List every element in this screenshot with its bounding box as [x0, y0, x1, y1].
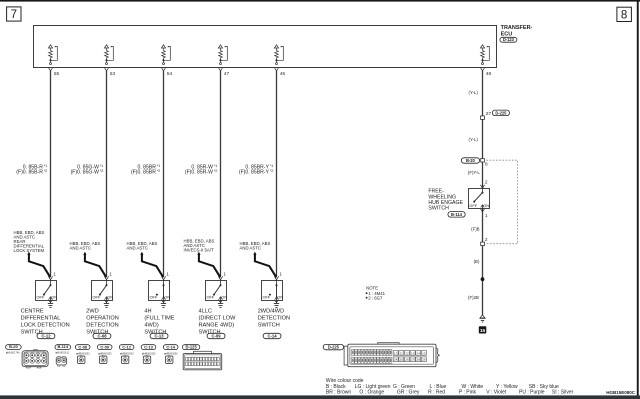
pull-up resistor at ECU pin 53 [104, 45, 113, 63]
2WD operation detection switch (box) [92, 280, 114, 303]
connector face view D-123 [182, 344, 221, 369]
svg-text:HGB15E080C: HGB15E080C [606, 390, 636, 395]
svg-text:54: 54 [167, 71, 173, 76]
svg-text:■MB802652: ■MB802652 [98, 352, 112, 355]
ground below 2WD/4WD detection switch [274, 304, 279, 308]
svg-text:C-14: C-14 [166, 344, 175, 349]
svg-text:C-08: C-08 [97, 334, 107, 339]
centre differential lock detection switch (box) [36, 280, 58, 303]
svg-text:D-225: D-225 [495, 110, 507, 115]
svg-text:AND ASTC: AND ASTC [70, 245, 92, 250]
svg-text:C-13: C-13 [144, 344, 153, 349]
svg-text:OFF: OFF [37, 295, 45, 300]
connector face view C-12 [119, 344, 134, 363]
svg-text:1: 1 [166, 272, 169, 277]
pull-up resistor at ECU pin 54 [161, 45, 170, 63]
svg-text:47: 47 [224, 71, 230, 76]
transfer ECU U1 box [34, 26, 497, 68]
ground below centre differential lock detection switch [48, 304, 53, 308]
page right border [637, 0, 639, 399]
svg-text:(B): (B) [474, 259, 480, 264]
pull-up resistor at ECU pin 55 [48, 45, 57, 63]
terminal chevron above 2WD/4WD detection switch [274, 276, 278, 279]
connector face view C-08 [75, 344, 90, 363]
svg-text:1: 1 [279, 272, 282, 277]
svg-text:■MB802652: ■MB802652 [142, 352, 156, 355]
svg-text:SWITCH: SWITCH [258, 322, 280, 328]
svg-text:12: 12 [405, 351, 409, 355]
terminal chevron above 2WD operation detection switch [104, 276, 108, 279]
free-wheeling hub engage switch (box) [469, 188, 490, 212]
svg-text:1: 1 [223, 272, 226, 277]
thick branch wire to other system (column 3) [140, 252, 163, 278]
svg-text:INVECS-II 5A/T: INVECS-II 5A/T [184, 248, 214, 253]
thick branch wire to other system (column 4) [197, 252, 220, 278]
svg-text:AND ASTC: AND ASTC [127, 245, 149, 250]
ECU pin 47 terminal [218, 68, 229, 77]
svg-text:(F)0. 85B-R *2: (F)0. 85B-R *2 [16, 169, 47, 176]
system reference text (column 5) [240, 241, 271, 250]
svg-text:27: 27 [486, 111, 492, 116]
name label of 4LLC (direct low range 4WD) switch [199, 308, 237, 335]
system reference text (column 1) [14, 230, 45, 253]
terminal chevron above 4LLC (direct low range 4WD) switch [218, 276, 222, 279]
wire from ECU pin 53 to switch (column 2) [106, 71, 108, 277]
svg-text:29: 29 [422, 358, 426, 362]
svg-text:C-13: C-13 [154, 334, 164, 339]
svg-text:11: 11 [400, 351, 403, 355]
svg-text:LOCK DETECTION: LOCK DETECTION [21, 322, 70, 328]
ECU pin 53 terminal [104, 68, 115, 77]
svg-text:24: 24 [394, 358, 398, 362]
connector face view B-20 [6, 344, 49, 368]
name label of centre differential lock detection switch [21, 308, 70, 335]
svg-text:28: 28 [417, 358, 421, 362]
svg-text:Wire colour code: Wire colour code [326, 378, 364, 384]
intermediate connector D-225 pin 27 junction [481, 110, 510, 119]
wire colour code legend [326, 378, 574, 396]
svg-text:10: 10 [394, 351, 398, 355]
connector B-20 pin 2 junction [481, 237, 488, 246]
wire from ECU pin 48 to free-wheeling hub engage switch and ground [482, 71, 484, 316]
svg-text:CENTRE: CENTRE [21, 308, 44, 314]
page number 7 box [7, 7, 21, 21]
svg-text:(F)2B: (F)2B [468, 295, 479, 300]
body ground symbol [479, 315, 485, 322]
svg-text:(F)0. 85R-W *2: (F)0. 85R-W *2 [185, 169, 217, 176]
wire from ECU pin 47 to switch (column 4) [220, 71, 222, 277]
svg-text:OPERATION: OPERATION [86, 315, 119, 321]
svg-text:■MB802652: ■MB802652 [164, 352, 178, 355]
svg-text:27: 27 [411, 358, 415, 362]
2WD/4WD detection switch (box) [262, 280, 284, 303]
terminal chevron above centre differential lock detection switch [48, 276, 52, 279]
pull-up resistor at ECU pin 46 [274, 45, 283, 63]
svg-text:TRANSFER-: TRANSFER- [501, 25, 533, 31]
connector face view D-225 [323, 343, 439, 367]
4LLC (direct low range 4WD) switch (box) [206, 280, 228, 303]
svg-text:AND ASTC: AND ASTC [240, 245, 262, 250]
svg-text:C-12: C-12 [41, 334, 51, 339]
connector face view C-13 [141, 344, 156, 363]
svg-text:2WD: 2WD [86, 308, 98, 314]
note block [366, 286, 386, 301]
terminal chevron above free-wheeling hub engage switch [480, 185, 484, 188]
svg-text:B-114: B-114 [57, 344, 68, 349]
page bottom bar [0, 395, 640, 399]
name label FREE-WHEELING HUB ENGAGE SWITCH [428, 189, 463, 212]
svg-text:B-114: B-114 [451, 212, 463, 217]
svg-text:C-09: C-09 [211, 334, 221, 339]
svg-text:25: 25 [400, 358, 404, 362]
page number 8 box [617, 7, 632, 21]
svg-text:8: 8 [485, 161, 488, 166]
page top border [0, 0, 640, 2]
svg-text:2: 2 [485, 237, 488, 242]
svg-text:26: 26 [405, 358, 409, 362]
svg-text:46: 46 [280, 71, 286, 76]
svg-text:(FULL TIME: (FULL TIME [144, 315, 174, 321]
svg-text:OFF: OFF [150, 295, 158, 300]
system reference text (column 2) [70, 241, 101, 250]
svg-text:OFF: OFF [93, 295, 101, 300]
svg-text:53: 53 [110, 71, 116, 76]
svg-text:C-14: C-14 [267, 334, 277, 339]
svg-text:B-20: B-20 [466, 158, 476, 163]
svg-text:OFF: OFF [469, 203, 477, 208]
label TRANSFER-ECU [501, 25, 533, 37]
ground below 4H (full time 4WD) switch [161, 304, 166, 308]
ground reference number 15 [479, 326, 487, 334]
svg-text:14: 14 [417, 351, 421, 355]
svg-text:1: 1 [53, 272, 56, 277]
thick branch wire to other system (column 2) [83, 252, 106, 278]
4H (full time 4WD) switch (box) [149, 280, 171, 303]
svg-text:1: 1 [485, 213, 488, 218]
name label of 4H (full time 4WD) switch [144, 308, 174, 335]
ECU pin 55 terminal [48, 68, 59, 77]
svg-text:D-225: D-225 [328, 345, 340, 350]
svg-text:(F)0. 85BR *2: (F)0. 85BR *2 [131, 169, 160, 176]
svg-text:NOTE: NOTE [366, 286, 378, 291]
wire from ECU pin 46 to switch (column 5) [276, 71, 278, 277]
ECU pin 46 terminal [274, 68, 285, 77]
wire from ECU pin 55 to switch (column 1) [50, 71, 52, 277]
svg-text:SWITCH: SWITCH [428, 206, 449, 212]
svg-text:B-20: B-20 [9, 344, 18, 349]
svg-text:D-123: D-123 [186, 344, 198, 349]
svg-text:55: 55 [54, 71, 60, 76]
connector face view B-114 [55, 344, 71, 366]
connector label C-08 [93, 333, 111, 338]
svg-text:(F)0. 85BR-Y *2: (F)0. 85BR-Y *2 [239, 169, 273, 176]
dashed connector outline B-20 pins 8-2 [486, 160, 517, 244]
connector face view C-09 [97, 344, 112, 363]
svg-text:■MB802652: ■MB802652 [120, 352, 134, 355]
connector label C-09 [207, 333, 225, 338]
svg-text:1: 1 [109, 272, 112, 277]
svg-text:13: 13 [411, 351, 415, 355]
connector B-20 pin 8 junction [461, 158, 488, 167]
svg-text:2: 2 [485, 180, 488, 185]
svg-text:(F)0. 85G-W *2: (F)0. 85G-W *2 [71, 169, 104, 176]
name label of 2WD operation detection switch [86, 308, 119, 335]
ground below 4LLC (direct low range 4WD) switch [218, 304, 223, 308]
svg-text:DIFFERENTIAL: DIFFERENTIAL [21, 315, 61, 321]
svg-text:2WD/4WD: 2WD/4WD [258, 308, 284, 314]
svg-text:RANGE 4WD): RANGE 4WD) [199, 322, 235, 328]
svg-text:OFF: OFF [263, 295, 271, 300]
connector label D-123 (ECU) [500, 37, 517, 42]
svg-text:D-123: D-123 [503, 37, 515, 42]
svg-text:C-08: C-08 [78, 344, 87, 349]
thick branch wire to other system (column 1) [27, 252, 50, 278]
svg-text:48: 48 [486, 71, 492, 76]
svg-text:DETECTION: DETECTION [258, 315, 290, 321]
svg-text:OFF: OFF [207, 295, 215, 300]
connector label C-12 [37, 333, 55, 338]
svg-text:(Y-L): (Y-L) [469, 90, 479, 95]
connector label C-13 [150, 333, 168, 338]
svg-text:■MU801746: ■MU801746 [6, 351, 20, 354]
svg-text:C-09: C-09 [100, 344, 109, 349]
pull-up resistor at ECU pin 47 [218, 45, 227, 63]
svg-text:(Y-L): (Y-L) [469, 137, 479, 142]
ECU pin 48 terminal [480, 68, 491, 77]
svg-text:7: 7 [11, 9, 17, 21]
svg-text:(F)Y-L: (F)Y-L [468, 170, 480, 175]
ECU pin 54 terminal [161, 68, 172, 77]
system reference text (column 3) [127, 241, 158, 250]
svg-text:4WD): 4WD) [144, 322, 158, 328]
connector label B-114 (switch) [448, 212, 465, 218]
svg-text:15: 15 [480, 328, 486, 334]
svg-text:2 : 6G7: 2 : 6G7 [368, 295, 383, 300]
terminal chevron above 4H (full time 4WD) switch [161, 276, 165, 279]
svg-text:(F)B: (F)B [471, 226, 480, 231]
connector label C-14 [263, 333, 281, 338]
system reference text (column 4) [184, 239, 215, 253]
svg-text:■MU802611: ■MU802611 [55, 351, 69, 354]
ground below 2WD operation detection switch [104, 304, 109, 308]
splice junction dot [481, 277, 485, 281]
svg-text:4H: 4H [144, 308, 151, 314]
svg-text:4LLC: 4LLC [199, 308, 212, 314]
name label of 2WD/4WD detection switch [258, 308, 290, 328]
svg-text:DETECTION: DETECTION [86, 322, 118, 328]
svg-text:(DIRECT LOW: (DIRECT LOW [199, 315, 237, 321]
pull-up resistor at ECU pin 48 [480, 45, 489, 63]
connector face view C-14 [163, 344, 178, 363]
svg-text:8: 8 [621, 10, 627, 22]
wire from ECU pin 54 to switch (column 3) [163, 71, 165, 277]
svg-text:15: 15 [422, 351, 426, 355]
svg-text:C-12: C-12 [122, 344, 131, 349]
svg-text:■MB802652: ■MB802652 [76, 352, 90, 355]
thick branch wire to other system (column 5) [253, 252, 276, 278]
